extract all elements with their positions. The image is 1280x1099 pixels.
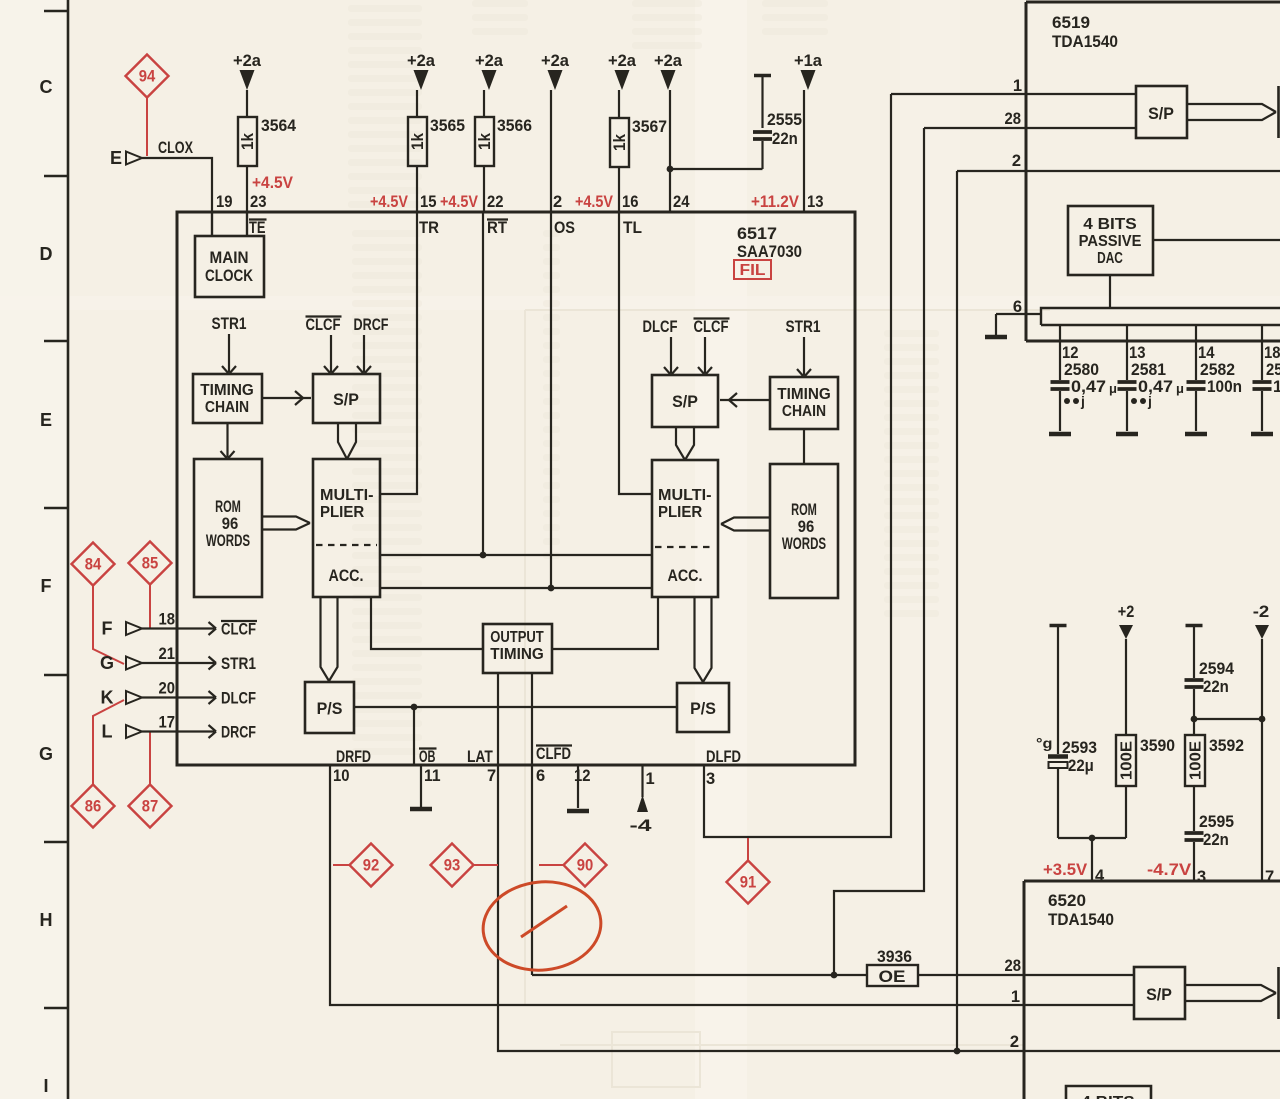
svg-text:+11.2V: +11.2V [751, 193, 799, 211]
svg-text:G: G [39, 744, 53, 764]
svg-text:PASSIVE: PASSIVE [1079, 233, 1142, 250]
svg-text:LAT: LAT [467, 748, 493, 766]
svg-text:DAC: DAC [1097, 250, 1123, 267]
svg-text:K: K [101, 688, 114, 708]
svg-text:10: 10 [333, 767, 350, 785]
svg-text:TDA1540: TDA1540 [1048, 911, 1114, 929]
svg-text:+1a: +1a [794, 52, 823, 70]
svg-text:3564: 3564 [261, 117, 297, 135]
svg-text:STR1: STR1 [221, 655, 256, 673]
svg-text:3565: 3565 [430, 117, 465, 135]
svg-text:OUTPUT: OUTPUT [490, 629, 544, 646]
svg-text:19: 19 [216, 193, 233, 211]
svg-text:DLFD: DLFD [706, 748, 741, 766]
svg-text:2: 2 [1010, 1033, 1019, 1051]
svg-text:+2: +2 [1118, 603, 1135, 621]
svg-text:+3.5V: +3.5V [1043, 861, 1087, 879]
svg-text:2593: 2593 [1062, 739, 1097, 757]
svg-text:D: D [40, 244, 53, 264]
svg-text:16: 16 [622, 193, 639, 211]
svg-text:+2a: +2a [475, 52, 504, 70]
svg-text:100E: 100E [1188, 741, 1205, 780]
svg-text:13: 13 [1129, 344, 1146, 362]
svg-text:93: 93 [444, 857, 461, 875]
svg-text:MULTI-: MULTI- [320, 487, 374, 504]
svg-text:TDA1540: TDA1540 [1052, 33, 1118, 51]
svg-text:TL: TL [623, 219, 642, 237]
svg-text:2580: 2580 [1064, 361, 1099, 379]
svg-text:DLCF: DLCF [221, 690, 256, 708]
svg-text:17: 17 [159, 714, 176, 732]
svg-text:+4.5V: +4.5V [440, 193, 478, 211]
svg-text:P/S: P/S [690, 700, 716, 718]
svg-text:μ: μ [1109, 381, 1117, 396]
svg-text:90: 90 [577, 857, 594, 875]
svg-text:G: G [100, 653, 114, 673]
svg-text:P/S: P/S [317, 700, 343, 718]
svg-text:L: L [102, 722, 113, 742]
svg-text:1k: 1k [475, 133, 494, 150]
svg-text:1: 1 [1273, 378, 1280, 396]
svg-text:PLIER: PLIER [320, 504, 365, 521]
svg-text:TIMING: TIMING [777, 386, 831, 403]
svg-text:ROM: ROM [791, 501, 817, 519]
svg-text:12: 12 [574, 767, 591, 785]
svg-text:OS: OS [554, 219, 575, 237]
svg-text:28: 28 [1005, 110, 1022, 128]
svg-text:RT: RT [487, 219, 507, 237]
svg-text:-4: -4 [630, 817, 653, 835]
svg-text:24: 24 [673, 193, 690, 211]
svg-text:-2: -2 [1253, 603, 1270, 621]
svg-text:μ: μ [1176, 381, 1184, 396]
svg-text:100n: 100n [1207, 378, 1242, 396]
svg-text:+2a: +2a [654, 52, 683, 70]
svg-text:FIL: FIL [740, 262, 766, 279]
svg-text:CLFD: CLFD [536, 745, 571, 763]
svg-text:S/P: S/P [1146, 986, 1172, 1004]
svg-text:3: 3 [1197, 868, 1206, 886]
svg-text:7: 7 [487, 767, 496, 785]
svg-text:0,47: 0,47 [1071, 378, 1106, 396]
svg-text:2582: 2582 [1200, 361, 1235, 379]
svg-text:18: 18 [1264, 344, 1280, 362]
svg-text:13: 13 [807, 193, 824, 211]
svg-text:28: 28 [1005, 957, 1022, 975]
svg-text:1: 1 [1011, 988, 1020, 1006]
svg-text:DRCF: DRCF [221, 724, 256, 742]
svg-text:1k: 1k [408, 133, 427, 150]
svg-text:ACC.: ACC. [329, 567, 364, 585]
svg-text:CLCF: CLCF [694, 318, 729, 336]
svg-text:3: 3 [706, 770, 715, 788]
svg-text:15: 15 [420, 193, 437, 211]
svg-text:+4.5V: +4.5V [575, 193, 613, 211]
svg-text:92: 92 [363, 857, 380, 875]
svg-text:2: 2 [1012, 152, 1021, 170]
svg-text:23: 23 [250, 193, 267, 211]
svg-text:F: F [41, 576, 52, 596]
svg-text:SAA7030: SAA7030 [737, 243, 802, 261]
svg-text:6: 6 [536, 767, 545, 785]
svg-text:2595: 2595 [1199, 813, 1234, 831]
svg-text:3936: 3936 [877, 948, 912, 966]
svg-text:96: 96 [798, 518, 815, 536]
svg-text:14: 14 [1198, 344, 1215, 362]
svg-text:H: H [40, 910, 53, 930]
svg-text:S/P: S/P [1148, 105, 1174, 123]
svg-text:3592: 3592 [1209, 737, 1244, 755]
svg-text:6517: 6517 [737, 225, 777, 243]
svg-text:CLCF: CLCF [221, 621, 256, 639]
svg-text:°g: °g [1036, 735, 1053, 751]
svg-text:E: E [110, 148, 122, 168]
svg-text:WORDS: WORDS [206, 532, 250, 550]
svg-text:STR1: STR1 [786, 318, 821, 336]
svg-text:100E: 100E [1119, 741, 1136, 780]
svg-text:+2a: +2a [407, 52, 436, 70]
svg-text:94: 94 [139, 68, 156, 86]
svg-text:20: 20 [159, 680, 176, 698]
svg-text:TR: TR [419, 219, 439, 237]
svg-text:2594: 2594 [1199, 660, 1235, 678]
svg-text:CLCF: CLCF [306, 316, 341, 334]
svg-text:DLCF: DLCF [643, 318, 678, 336]
svg-text:+2a: +2a [541, 52, 570, 70]
svg-text:22: 22 [487, 193, 504, 211]
svg-text:11: 11 [424, 767, 441, 785]
svg-text:WORDS: WORDS [782, 535, 826, 553]
svg-text:TE: TE [249, 219, 266, 237]
svg-text:25: 25 [1266, 361, 1280, 379]
svg-text:12: 12 [1062, 344, 1079, 362]
svg-text:MULTI-: MULTI- [658, 487, 712, 504]
svg-text:4 BITS: 4 BITS [1083, 216, 1137, 233]
svg-text:2: 2 [553, 193, 562, 211]
svg-text:96: 96 [222, 515, 239, 533]
svg-text:1k: 1k [610, 134, 629, 151]
svg-text:86: 86 [85, 798, 102, 816]
svg-text:MAIN: MAIN [210, 249, 249, 267]
svg-text:j: j [1147, 393, 1152, 409]
svg-text:E: E [40, 410, 52, 430]
svg-text:1: 1 [1013, 77, 1022, 95]
svg-text:C: C [40, 77, 53, 97]
svg-text:STR1: STR1 [212, 315, 247, 333]
svg-text:F: F [102, 619, 113, 639]
svg-text:S/P: S/P [333, 391, 359, 409]
svg-text:4 BITS: 4 BITS [1081, 1094, 1135, 1099]
svg-text:87: 87 [142, 798, 159, 816]
svg-text:21: 21 [159, 645, 176, 663]
svg-text:22n: 22n [772, 130, 798, 148]
svg-text:7: 7 [1265, 868, 1274, 886]
svg-text:OB: OB [419, 748, 436, 766]
svg-text:91: 91 [740, 874, 757, 892]
svg-text:3567: 3567 [632, 118, 667, 136]
svg-text:DRFD: DRFD [336, 748, 371, 766]
svg-text:-4.7V: -4.7V [1147, 861, 1191, 879]
svg-text:+4.5V: +4.5V [370, 193, 408, 211]
svg-text:ROM: ROM [215, 498, 241, 516]
svg-text:+2a: +2a [608, 52, 637, 70]
svg-text:2581: 2581 [1131, 361, 1166, 379]
svg-text:18: 18 [159, 611, 176, 629]
svg-text:2555: 2555 [767, 111, 802, 129]
svg-text:CHAIN: CHAIN [205, 399, 249, 416]
svg-text:CLOCK: CLOCK [205, 267, 253, 285]
svg-text:1k: 1k [238, 133, 257, 150]
svg-text:ACC.: ACC. [668, 567, 703, 585]
svg-text:22n: 22n [1203, 831, 1229, 849]
svg-text:3590: 3590 [1140, 737, 1175, 755]
svg-text:DRCF: DRCF [354, 316, 389, 334]
svg-text:TIMING: TIMING [490, 646, 544, 663]
svg-text:84: 84 [85, 556, 102, 574]
svg-text:22n: 22n [1203, 678, 1229, 696]
svg-text:OE: OE [879, 967, 906, 986]
svg-text:j: j [1080, 393, 1085, 409]
svg-text:3566: 3566 [497, 117, 532, 135]
svg-text:+4.5V: +4.5V [252, 174, 293, 192]
svg-text:6520: 6520 [1048, 892, 1086, 910]
svg-text:85: 85 [142, 555, 159, 573]
svg-text:CHAIN: CHAIN [782, 403, 826, 420]
svg-text:22μ: 22μ [1068, 757, 1094, 775]
svg-text:CLOX: CLOX [158, 139, 193, 157]
svg-text:+2a: +2a [233, 52, 262, 70]
svg-text:6519: 6519 [1052, 14, 1090, 32]
svg-text:I: I [43, 1076, 48, 1096]
svg-text:S/P: S/P [672, 393, 698, 411]
svg-text:1: 1 [646, 770, 655, 788]
svg-text:TIMING: TIMING [200, 382, 254, 399]
svg-text:0,47: 0,47 [1138, 378, 1173, 396]
svg-text:PLIER: PLIER [658, 504, 703, 521]
